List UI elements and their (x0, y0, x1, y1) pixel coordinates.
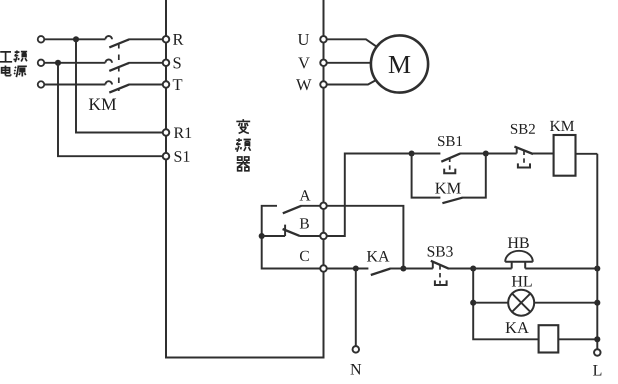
wire to lamp HL (473, 302, 508, 304)
KM self-holding branch wire (412, 154, 486, 198)
contact at B (NC) (262, 225, 321, 236)
pushbutton SB1 (NO) (412, 154, 486, 174)
contact KM (self-hold, NO) (442, 198, 462, 204)
junction dot on bus at B level (259, 233, 265, 239)
junction dot lamp-bus at HL row (470, 300, 476, 306)
label W (296, 79, 312, 90)
wire A to right and down to C row (327, 206, 404, 269)
input terminal circles (3-phase) (38, 36, 45, 88)
label 变频器 (inverter), vertical (236, 119, 251, 171)
terminal C on box (320, 265, 327, 272)
频 (14, 50, 27, 62)
电 (2, 65, 11, 75)
wire lamp to right bus (534, 302, 597, 304)
label KM (main contactor) (89, 99, 116, 110)
terminal B on box (320, 233, 327, 240)
junction dot right bus at HL row (594, 300, 600, 306)
label B (300, 218, 309, 228)
label SB2 (511, 124, 535, 134)
label SB3 (428, 246, 453, 256)
label SB1 (438, 136, 462, 146)
wire coil to right bus (576, 153, 598, 155)
wire V to motor (327, 62, 371, 65)
label KM (coil) (550, 121, 574, 131)
wire N drop (355, 269, 357, 347)
lamp HL (508, 290, 534, 316)
junction dot right of SB1 (483, 150, 489, 156)
terminal R1 on box (163, 129, 170, 136)
coil KM (554, 135, 576, 176)
label R (173, 34, 184, 45)
label 工频电源 (mains supply), drawn as vector strokes (0, 50, 27, 77)
label U (298, 34, 309, 45)
label M (motor) (389, 56, 411, 73)
wire HB to right bus (525, 268, 597, 270)
label KM (self-hold contact) (435, 183, 461, 194)
label L (593, 365, 601, 375)
wire SB1 to SB2 (486, 153, 517, 155)
terminal U on box (320, 36, 327, 43)
motor M circle (371, 35, 428, 92)
terminal V on box (320, 60, 327, 67)
频 (236, 138, 251, 152)
pushbutton SB3 (NC) (431, 261, 473, 285)
label KA (coil) (506, 322, 529, 333)
relay contact KA (NO) (371, 269, 404, 276)
junction dot A-branch on C row (400, 265, 406, 271)
源 (14, 66, 27, 77)
变 (236, 119, 250, 133)
contactor KM main contact 2 (105, 60, 129, 71)
wire phase1 terminal to KM contact (44, 38, 105, 40)
label T (173, 79, 183, 90)
label HL (512, 276, 532, 286)
wire phase1 branch down to R1 (76, 39, 163, 132)
contactor KM main contact 1 (105, 36, 129, 47)
junction dot phase2 (55, 60, 61, 66)
bell HB (505, 251, 533, 269)
label S (174, 57, 181, 68)
terminal S1 on box (163, 153, 170, 160)
wire contact1 to R (129, 38, 163, 40)
label HB (508, 238, 529, 249)
wire contact2 to S (129, 62, 163, 64)
right bus wire (596, 154, 598, 349)
A-B-C left bus wire (262, 206, 321, 269)
label S1 (175, 151, 190, 162)
器 (237, 157, 250, 171)
inverter box 变频器 (166, 0, 324, 358)
contactor KM main contact 3 (105, 81, 129, 92)
lamp branch bus (473, 269, 538, 340)
terminal T on box (163, 81, 170, 88)
wire to bell HB (473, 268, 512, 270)
junction dot right bus at HB row (594, 265, 600, 271)
top control row: dot left of SB1 (409, 150, 415, 156)
label N (350, 364, 361, 374)
wire C row to N branch and KA (327, 268, 369, 270)
wire W to motor (327, 80, 376, 84)
wire U to motor (327, 39, 376, 46)
terminal R on box (163, 36, 170, 43)
label R1 (174, 127, 191, 138)
wire phase2 branch down to S1 (58, 63, 163, 156)
junction dot lamp-bus top (470, 265, 476, 271)
junction dot N branch (353, 265, 359, 271)
terminal S on box (163, 60, 170, 67)
coil KA (539, 325, 559, 352)
KM linkage dashed line (118, 43, 120, 91)
terminal W on box (320, 81, 327, 88)
label V (298, 57, 310, 68)
label KA (contact) (367, 251, 390, 262)
terminal N (353, 346, 360, 353)
wire phase3 terminal to KM contact (44, 84, 105, 86)
junction dot phase1 (73, 36, 79, 42)
wire phase2 terminal to KM contact (44, 62, 105, 64)
contact at A (NO) (283, 206, 321, 214)
工 (0, 52, 12, 62)
wire B right and up to control row (327, 154, 412, 237)
terminal A on box (320, 203, 327, 210)
label A (300, 190, 311, 200)
label C (300, 251, 309, 261)
terminal L (594, 349, 601, 356)
wire to SB3 (403, 268, 432, 270)
junction dot right bus at KA row (594, 336, 600, 342)
wire contact3 to T (129, 84, 163, 86)
wire KA coil to right bus (558, 338, 597, 340)
pushbutton SB2 (NC) (514, 147, 553, 168)
